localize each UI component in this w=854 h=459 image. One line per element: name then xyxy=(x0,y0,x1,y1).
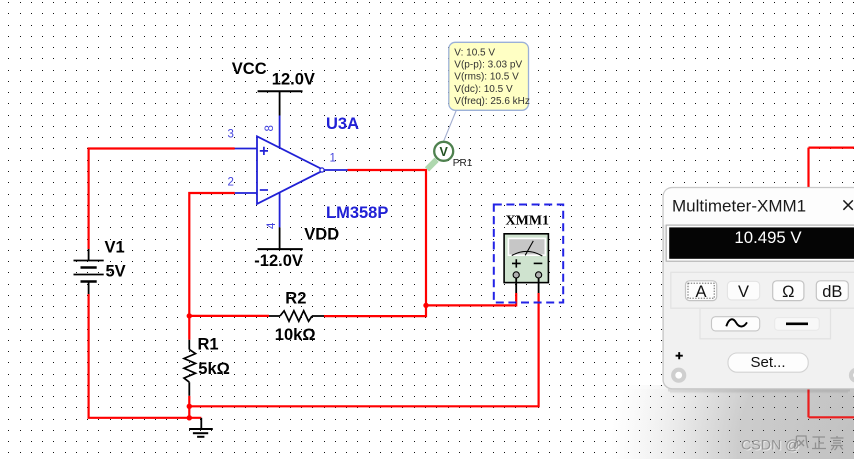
svg-text:Set...: Set... xyxy=(750,354,785,371)
svg-text:V(p-p): 3.03 pV: V(p-p): 3.03 pV xyxy=(454,60,522,71)
close button xyxy=(843,200,852,209)
wire V1+ to op-amp pin3 (net at y=148.5) xyxy=(89,149,235,250)
svg-text:Multimeter-XMM1: Multimeter-XMM1 xyxy=(672,197,806,216)
VCC power symbol xyxy=(258,91,303,115)
plus sign input xyxy=(260,147,268,155)
junction node R1 bottom / XMM1 minus xyxy=(187,404,192,409)
svg-text:R2: R2 xyxy=(285,290,306,308)
right edge component wires xyxy=(809,148,854,418)
watermark glyph 正 xyxy=(812,437,826,449)
watermark glyph 豪 xyxy=(831,436,844,450)
svg-text:V(dc): 10.5 V: V(dc): 10.5 V xyxy=(454,84,513,95)
watermark text CSDN xyxy=(741,438,801,455)
probe PR1 handle xyxy=(427,160,437,170)
minus sign input xyxy=(260,189,268,191)
plus terminal stem xyxy=(515,278,517,293)
svg-text:-12.0V: -12.0V xyxy=(254,252,303,270)
svg-text:3: 3 xyxy=(228,129,234,141)
Set button xyxy=(728,353,808,372)
pin 2 stub xyxy=(235,192,257,194)
probe tooltip box xyxy=(449,42,530,110)
svg-text:12.0V: 12.0V xyxy=(272,71,315,89)
svg-text:U3A: U3A xyxy=(326,115,359,133)
resistor R1 xyxy=(184,340,196,396)
battery V1 xyxy=(74,249,104,294)
svg-text:V: 10.5 V: V: 10.5 V xyxy=(454,47,495,58)
svg-text:V(freq): 25.6 kHz: V(freq): 25.6 kHz xyxy=(454,96,530,107)
multimeter window xyxy=(663,188,854,393)
button sine xyxy=(712,317,760,331)
svg-text:VCC: VCC xyxy=(232,60,267,78)
wire R1 bottom to node xyxy=(188,396,190,418)
junction node ground net xyxy=(187,415,192,420)
ground xyxy=(189,418,213,437)
title bar xyxy=(664,188,854,225)
svg-text:5kΩ: 5kΩ xyxy=(198,360,230,378)
pin 4 stub xyxy=(279,193,281,228)
minus terminal stem xyxy=(538,278,540,293)
svg-text:XMM1: XMM1 xyxy=(506,214,550,229)
wire node to XMM1 plus terminal xyxy=(426,293,516,305)
plus terminal label xyxy=(676,352,683,359)
button dB xyxy=(816,281,848,301)
multimeter XMM1 icon selection box xyxy=(494,205,563,303)
pin 8 stub xyxy=(279,116,281,148)
window frame xyxy=(663,188,854,389)
wire op-amp output down to node xyxy=(348,170,427,305)
wire op-amp pin2 to feedback node and R1 top xyxy=(189,193,235,340)
svg-text:4: 4 xyxy=(266,222,278,229)
svg-text:LM358P: LM358P xyxy=(326,204,388,222)
window shadow xyxy=(668,389,850,392)
svg-text:1: 1 xyxy=(330,153,336,165)
svg-text:5V: 5V xyxy=(106,263,126,281)
group box lines xyxy=(671,272,854,308)
svg-text:V(rms): 10.5 V: V(rms): 10.5 V xyxy=(454,72,519,83)
svg-text:8: 8 xyxy=(264,125,276,131)
wire XMM1 minus terminal to bottom node xyxy=(189,293,538,406)
svg-text:2: 2 xyxy=(228,177,234,189)
svg-text:Ω: Ω xyxy=(782,283,794,301)
svg-text:V: V xyxy=(440,145,449,159)
probe PR1 leader line xyxy=(444,111,457,142)
svg-text:A: A xyxy=(695,283,706,301)
probe PR1 ring xyxy=(434,142,453,161)
svg-text:10kΩ: 10kΩ xyxy=(275,326,316,344)
svg-text:V1: V1 xyxy=(105,239,125,257)
svg-text:V: V xyxy=(738,283,749,301)
terminal right xyxy=(851,370,854,381)
pin 1 stub xyxy=(324,169,348,171)
svg-text:10.495 V: 10.495 V xyxy=(734,228,802,247)
watermark gradient xyxy=(596,385,854,459)
button DC xyxy=(775,318,820,331)
pin 3 stub xyxy=(235,148,257,150)
wire R2 right to output node xyxy=(324,305,426,316)
button Ω xyxy=(773,281,804,301)
svg-text:VDD: VDD xyxy=(304,226,339,244)
svg-text:PR1: PR1 xyxy=(453,158,473,169)
svg-text:dB: dB xyxy=(822,283,842,301)
terminal left xyxy=(673,370,684,381)
wire R2 left lead to node xyxy=(189,315,269,317)
watermark glyph 风 xyxy=(795,436,809,448)
svg-text:R1: R1 xyxy=(198,336,219,354)
junction node output xyxy=(423,303,428,308)
watermark overlay top xyxy=(596,389,854,459)
resistor R2 xyxy=(269,311,324,321)
button V xyxy=(727,281,759,300)
display frame xyxy=(666,225,854,261)
op-amp U3A xyxy=(235,116,348,228)
multimeter XMM1 icon xyxy=(504,234,548,293)
wire V1- to ground net xyxy=(89,294,202,418)
button A xyxy=(686,281,717,301)
VDD power symbol xyxy=(258,227,303,249)
junction node R2/R1/pin2 xyxy=(187,313,192,318)
